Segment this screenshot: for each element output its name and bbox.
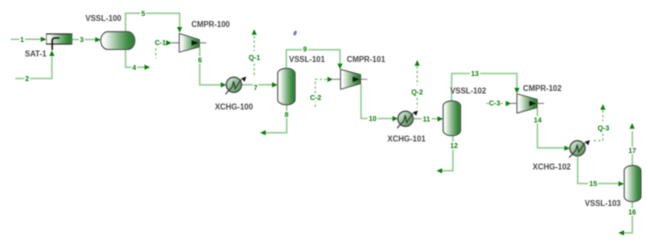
stream 7 line	[241, 84, 272, 86]
stream 15 line	[578, 156, 618, 184]
svg-text:3: 3	[80, 37, 84, 44]
stream 13 arrow	[514, 88, 519, 94]
stream 13 line	[452, 74, 517, 101]
stream 2 line	[15, 57, 52, 79]
energy stream C-3 dashed line	[486, 102, 488, 104]
mixer SAT-1	[46, 34, 72, 50]
svg-text:C-2: C-2	[310, 95, 321, 102]
svg-text:CMPR-102: CMPR-102	[523, 84, 562, 93]
svg-text:12: 12	[450, 143, 458, 150]
stream 1 line	[11, 38, 42, 40]
stream 4 label	[131, 64, 137, 71]
stream 9 line	[286, 50, 340, 68]
stream 8 label	[284, 111, 290, 118]
stream 1 label	[19, 36, 25, 43]
horizontal vessel VSSL-100	[101, 32, 135, 50]
stream 10 arrow	[392, 116, 398, 121]
stream 17 line	[631, 131, 633, 165]
stream 5 label	[140, 10, 146, 17]
energy stream Q-1 dashed line	[253, 36, 255, 51]
stream 8 arrow	[260, 130, 266, 135]
energy stream Q-1 arrow	[252, 29, 257, 35]
stream 16 arrow	[618, 230, 624, 235]
stream 13 label	[470, 70, 480, 77]
svg-text:XCHG-102: XCHG-102	[533, 163, 572, 172]
stream 12 line	[442, 136, 453, 171]
energy stream C-1 dashed stub	[155, 48, 157, 58]
stream 4 arrow	[145, 65, 151, 70]
stream 17 arrow	[630, 123, 635, 129]
energy stream Q-2 dashed line	[416, 66, 418, 85]
svg-text:Q-3: Q-3	[598, 125, 610, 132]
blue cursor artifact	[293, 30, 297, 36]
stream 14 label	[533, 116, 543, 123]
svg-text:16: 16	[628, 210, 636, 217]
svg-text:VSSL-103: VSSL-103	[585, 199, 622, 208]
energy stream C-2 arrow	[327, 77, 333, 82]
svg-text:VSSL-102: VSSL-102	[450, 86, 487, 95]
stream 14 line	[537, 108, 564, 148]
svg-text:1: 1	[20, 37, 24, 44]
svg-text:14: 14	[534, 118, 542, 125]
svg-text:VSSL-101: VSSL-101	[289, 55, 326, 64]
stream 9 arrow	[337, 64, 342, 70]
stream 7 arrow	[272, 82, 278, 87]
energy stream Q-3 arrow	[600, 104, 605, 110]
svg-text:VSSL-100: VSSL-100	[85, 14, 122, 23]
compressor CMPR-102	[509, 94, 544, 113]
svg-text:10: 10	[369, 116, 377, 123]
svg-text:17: 17	[628, 148, 636, 155]
stream 3 line	[72, 39, 95, 41]
stream 15 arrow	[618, 181, 624, 186]
stream 17 label	[627, 147, 637, 154]
svg-text:15: 15	[589, 181, 597, 188]
heat exchanger XCHG-101	[397, 111, 418, 129]
svg-text:C-3: C-3	[489, 101, 500, 108]
stream 5 arrow	[177, 27, 182, 33]
svg-text:4: 4	[132, 65, 136, 72]
svg-text:9: 9	[303, 47, 307, 54]
svg-text:XCHG-101: XCHG-101	[387, 135, 426, 144]
stream 10 line	[361, 84, 392, 119]
stream 2 label	[24, 75, 30, 82]
stream 16 line	[624, 202, 633, 233]
stream 10 label	[368, 115, 378, 122]
svg-text:13: 13	[471, 71, 479, 78]
stream 3 label	[79, 36, 85, 43]
heat exchanger XCHG-100	[226, 77, 247, 95]
stream 4 line	[126, 50, 145, 68]
stream 6 line	[200, 47, 221, 85]
energy stream Q-2 arrow	[415, 60, 420, 66]
stream 11 arrow	[438, 116, 444, 121]
svg-text:6: 6	[198, 58, 202, 65]
svg-text:Q-1: Q-1	[249, 55, 261, 62]
energy stream C-3 arrow	[506, 101, 512, 106]
compressor CMPR-101	[333, 69, 368, 89]
svg-text:Q-2: Q-2	[411, 89, 423, 96]
energy stream Q-3 dashed line	[602, 110, 604, 121]
vertical vessel VSSL-101	[278, 68, 295, 105]
stream 6 arrow	[221, 82, 227, 87]
stream 15 label	[588, 180, 598, 187]
svg-text:SAT-1: SAT-1	[25, 49, 47, 58]
heat exchanger XCHG-102	[569, 140, 590, 158]
stream 11 line	[413, 118, 438, 120]
stream 6 label	[197, 56, 203, 63]
svg-text:7: 7	[254, 85, 258, 92]
stream 12 arrow	[437, 168, 443, 173]
svg-text:8: 8	[285, 112, 289, 119]
stream 1 arrow	[41, 37, 47, 42]
energy stream C-1 arrow	[166, 40, 172, 45]
stream 2 arrow	[49, 50, 54, 56]
compressor CMPR-100	[172, 34, 207, 53]
svg-text:CMPR-100: CMPR-100	[191, 20, 230, 29]
svg-text:XCHG-100: XCHG-100	[215, 102, 254, 111]
stream 12 label	[449, 142, 459, 149]
vertical vessel VSSL-102	[443, 101, 461, 136]
svg-text:CMPR-101: CMPR-101	[347, 55, 386, 64]
stream 7 label	[253, 84, 259, 91]
vertical vessel VSSL-103	[624, 165, 641, 201]
svg-text:2: 2	[25, 76, 29, 83]
stream 3 arrow	[95, 37, 101, 42]
stream 9 label	[302, 45, 308, 52]
svg-text:5: 5	[141, 11, 145, 18]
stream 16 label	[627, 208, 637, 215]
stream 14 arrow	[564, 146, 570, 151]
stream 5 line	[126, 13, 180, 31]
svg-text:C-1: C-1	[155, 40, 166, 47]
stream 11 label	[422, 115, 432, 122]
energy stream C-2 dashed line	[314, 102, 316, 107]
stream 8 line	[265, 105, 286, 133]
svg-text:11: 11	[423, 116, 431, 123]
